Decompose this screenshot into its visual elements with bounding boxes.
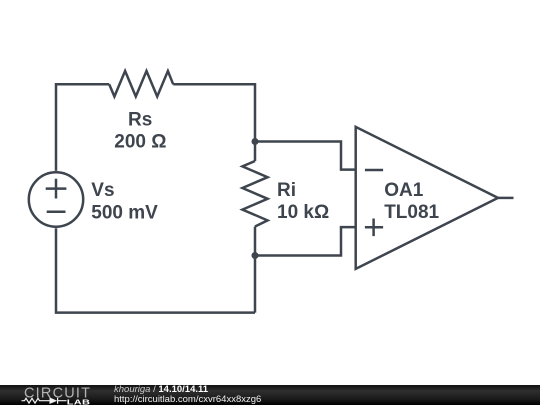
wire bottom [56, 228, 255, 312]
junction node top [252, 138, 259, 145]
op-amp minus sign [365, 169, 383, 172]
resistor Ri [242, 161, 267, 227]
Vs minus sign [47, 211, 66, 214]
svg-text:200 Ω: 200 Ω [114, 132, 166, 153]
svg-text:Rs: Rs [128, 110, 152, 131]
footer bar [0, 385, 540, 406]
svg-text:LAB: LAB [67, 397, 90, 406]
wire top left horizontal [56, 84, 109, 171]
Vs plus sign [46, 179, 67, 199]
op-amp plus sign [365, 219, 383, 237]
op-amp OA1 triangle [356, 127, 498, 269]
wire bottom right vertical [254, 227, 257, 313]
wire to op-amp inverting input [255, 142, 356, 170]
svg-text:Vs: Vs [91, 180, 114, 201]
junction node bottom [252, 252, 259, 259]
resistor Rs [109, 71, 173, 97]
svg-text:Ri: Ri [277, 180, 296, 201]
svg-text:500 mV: 500 mV [91, 203, 158, 224]
wire top right [173, 84, 255, 161]
svg-text:OA1: OA1 [384, 180, 424, 201]
wire output [498, 197, 514, 200]
wire to op-amp non-inverting input [255, 227, 356, 255]
voltage source Vs [29, 172, 83, 226]
svg-text:TL081: TL081 [384, 202, 439, 223]
CircuitLab logo [0, 385, 100, 406]
svg-text:10 kΩ: 10 kΩ [277, 202, 329, 223]
